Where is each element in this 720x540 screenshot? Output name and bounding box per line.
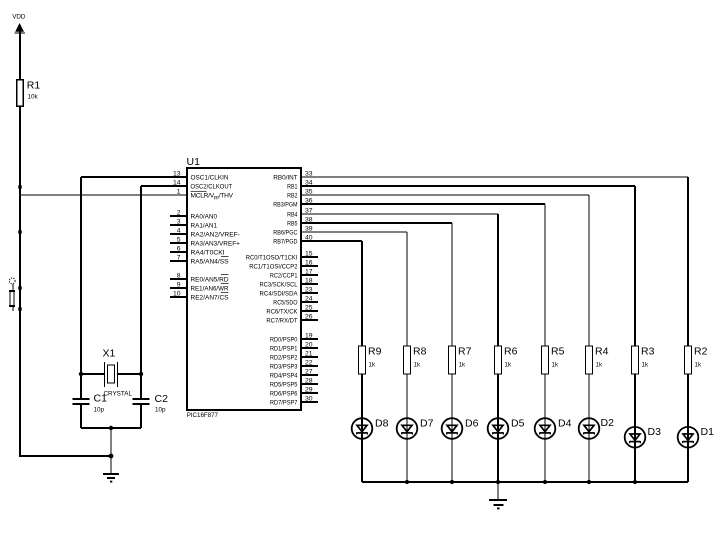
wire D3 to ground bus: [634, 448, 636, 483]
svg-text:RC7/RX/DT: RC7/RX/DT: [266, 318, 297, 325]
svg-text:RC3/SCK/SCL: RC3/SCK/SCL: [260, 282, 298, 289]
U1 pin 7 RA5/AN4/SS: [170, 254, 229, 265]
resistor R2 1k: [685, 346, 708, 375]
U1 pin 9 RE1/AN6/WR: [170, 281, 229, 292]
wire C1 to bottom: [80, 404, 82, 428]
U1 pin 38 RB5: [287, 216, 313, 227]
svg-text:RD4/PSP4: RD4/PSP4: [270, 373, 298, 380]
svg-text:10p: 10p: [94, 407, 105, 414]
svg-text:18: 18: [305, 277, 313, 284]
svg-text:R7: R7: [458, 346, 472, 358]
wire R4 to D2: [588, 374, 590, 418]
wire crystal bottom: [81, 427, 141, 429]
U1 pin 22 RD3/PSP3: [270, 359, 318, 370]
svg-text:RC5/SDO: RC5/SDO: [273, 300, 297, 307]
LED D4: [535, 418, 572, 439]
svg-text:24: 24: [305, 295, 313, 302]
svg-text:RE1/AN6/WR: RE1/AN6/WR: [191, 286, 229, 293]
wire RB2 (pin 35) to R4: [301, 195, 589, 346]
ground symbol right: [489, 500, 507, 509]
svg-text:10k: 10k: [28, 94, 39, 101]
U1 pin 1 MCLR/Vpp/THV: [177, 188, 234, 200]
junction button top: [18, 286, 21, 289]
svg-text:4: 4: [177, 227, 181, 234]
LED D5: [488, 418, 525, 439]
svg-text:RC1/T1OSI/CCP2: RC1/T1OSI/CCP2: [249, 264, 298, 271]
U1 pin 33 RB0/INT: [273, 170, 312, 181]
junction crystal left: [79, 372, 83, 376]
svg-text:RA5/AN4/SS: RA5/AN4/SS: [191, 259, 230, 266]
svg-text:16: 16: [305, 259, 313, 266]
U1 pin 39 RB6/PGC: [273, 225, 312, 236]
wire RB5 (pin 38) to R7: [301, 223, 452, 346]
wire RB0 (pin 33) to R2: [301, 177, 688, 346]
U1 pin 15 RC0/T1OSO/T1CKI: [246, 250, 318, 261]
resistor R7 1k: [449, 346, 472, 375]
svg-text:10: 10: [173, 290, 181, 297]
wire D8 to ground bus: [361, 439, 363, 482]
wire R6 to D5: [497, 374, 499, 418]
svg-text:RB1: RB1: [287, 184, 298, 191]
U1 pin 40 RB7/PGD: [273, 234, 312, 245]
junction ground bus at D5: [496, 480, 500, 484]
wire OSC1 horizontal (pin 13): [81, 176, 187, 178]
wire RB7 (pin 40) to R9: [301, 241, 362, 346]
svg-text:35: 35: [305, 188, 313, 195]
wire R7 to D6: [451, 374, 453, 418]
svg-text:C1: C1: [94, 393, 108, 405]
svg-text:D3: D3: [648, 426, 662, 438]
wire D4 to ground bus: [544, 439, 546, 482]
svg-text:1k: 1k: [596, 362, 603, 369]
svg-text:RD3/PSP3: RD3/PSP3: [270, 364, 298, 371]
svg-text:37: 37: [305, 207, 313, 214]
svg-text:19: 19: [305, 332, 313, 339]
U1 pin 8 RE0/AN5/RD: [170, 272, 229, 283]
svg-text:RC4/SDI/SDA: RC4/SDI/SDA: [260, 291, 299, 298]
svg-text:29: 29: [305, 386, 313, 393]
svg-text:RD0/PSP0: RD0/PSP0: [270, 337, 298, 344]
svg-text:RB6/PGC: RB6/PGC: [273, 230, 297, 237]
svg-text:OSC1/CLKIN: OSC1/CLKIN: [191, 175, 229, 182]
U1 pin 2 RA0/AN0: [170, 209, 217, 220]
svg-text:RA0/AN0: RA0/AN0: [191, 214, 218, 221]
wire D5 to ground bus: [497, 439, 499, 482]
svg-text:R9: R9: [368, 346, 382, 358]
junction ground bus at D2: [587, 480, 591, 484]
svg-text:1k: 1k: [695, 362, 702, 369]
LED D7: [397, 418, 434, 439]
svg-text:VDD: VDD: [12, 14, 26, 21]
LED D2: [579, 417, 614, 439]
wire to ground 1: [110, 428, 112, 473]
resistor R5 1k: [542, 346, 565, 375]
wire R9 to D8: [361, 374, 363, 418]
svg-text:RA3/AN3/VREF+: RA3/AN3/VREF+: [191, 241, 241, 248]
wire RB4 (pin 37) to R6: [301, 214, 498, 346]
svg-text:D2: D2: [601, 417, 615, 429]
junction ground bus at D4: [543, 480, 547, 484]
wire D1 to ground bus: [687, 448, 689, 483]
svg-text:RD7/PSP7: RD7/PSP7: [270, 400, 298, 407]
svg-text:C2: C2: [155, 393, 169, 405]
wire OSC2 horizontal (pin 14): [141, 185, 187, 187]
resistor R4 1k: [586, 346, 609, 375]
U1 pin 26 RC7/RX/DT: [266, 313, 318, 324]
svg-text:1k: 1k: [552, 362, 559, 369]
svg-text:RB4: RB4: [287, 212, 298, 219]
svg-text:21: 21: [305, 350, 313, 357]
U1 pin 16 RC1/T1OSI/CCP2: [249, 259, 318, 270]
svg-text:RA4/T0CKI: RA4/T0CKI: [191, 250, 225, 257]
svg-text:RC0/T1OSO/T1CKI: RC0/T1OSO/T1CKI: [246, 255, 298, 262]
junction crystal bottom: [109, 426, 113, 430]
U1 pin 36 RB3/PGM: [273, 197, 312, 208]
U1 pin 28 RD5/PSP5: [270, 377, 318, 388]
svg-text:2: 2: [177, 209, 181, 216]
svg-text:D7: D7: [420, 418, 434, 430]
U1 pin 34 RB1: [287, 179, 313, 190]
svg-text:RC2/CCP1: RC2/CCP1: [270, 273, 298, 280]
U1 pin 35 RB2: [287, 188, 313, 199]
wire C2 to bottom: [140, 404, 142, 428]
wire OSC2 vertical: [140, 186, 142, 399]
svg-text:7: 7: [177, 254, 181, 261]
svg-text:RB2: RB2: [287, 193, 298, 200]
U1 pin 37 RB4: [287, 207, 313, 218]
U1 pin 4 RA2/AN2/VREF-: [170, 227, 240, 238]
U1 pin 13 OSC1/CLKIN: [173, 170, 229, 181]
svg-text:MCLR/Vpp/THV: MCLR/Vpp/THV: [191, 193, 234, 201]
wire MCLR rail (R1 to bottom corner): [19, 106, 21, 456]
wire R5 to D4: [544, 374, 546, 418]
svg-text:6: 6: [177, 245, 181, 252]
svg-text:RA1/AN1: RA1/AN1: [191, 223, 218, 230]
LED D3: [625, 426, 661, 448]
svg-text:RD6/PSP6: RD6/PSP6: [270, 391, 298, 398]
svg-text:22: 22: [305, 359, 313, 366]
svg-text:D1: D1: [701, 426, 715, 438]
svg-text:R4: R4: [595, 346, 609, 358]
svg-text:3: 3: [177, 218, 181, 225]
svg-text:U1: U1: [187, 156, 201, 168]
svg-text:RB3/PGM: RB3/PGM: [273, 202, 297, 209]
wire R3 to D3: [634, 374, 636, 427]
svg-text:D5: D5: [511, 418, 525, 430]
svg-text:RD1/PSP1: RD1/PSP1: [270, 346, 298, 353]
svg-text:RB5: RB5: [287, 221, 298, 228]
svg-text:1k: 1k: [459, 362, 466, 369]
svg-text:8: 8: [177, 272, 181, 279]
U1 pin 18 RC3/SCK/SCL: [260, 277, 319, 288]
svg-text:PIC16F877: PIC16F877: [187, 412, 219, 419]
svg-text:23: 23: [305, 286, 313, 293]
svg-text:17: 17: [305, 268, 313, 275]
svg-text:1: 1: [177, 188, 181, 195]
svg-text:20: 20: [305, 341, 313, 348]
svg-text:RB7/PGD: RB7/PGD: [273, 239, 297, 246]
wire RB3 (pin 36) to R5: [301, 204, 545, 346]
svg-text:X1: X1: [103, 348, 116, 360]
wire D6 to ground bus: [451, 439, 453, 482]
svg-text:R8: R8: [413, 346, 427, 358]
LED D6: [442, 418, 479, 439]
svg-text:1k: 1k: [414, 362, 421, 369]
svg-text:1k: 1k: [369, 362, 376, 369]
svg-text:RD5/PSP5: RD5/PSP5: [270, 382, 298, 389]
svg-text:5: 5: [177, 236, 181, 243]
capacitor C2 10p: [133, 393, 169, 414]
U1 pin 20 RD1/PSP1: [270, 341, 318, 352]
svg-text:27: 27: [305, 368, 313, 375]
LED D1: [678, 426, 714, 448]
svg-text:28: 28: [305, 377, 313, 384]
svg-text:25: 25: [305, 304, 313, 311]
resistor R8 1k: [404, 346, 427, 375]
resistor R6 1k: [495, 346, 518, 375]
svg-text:R2: R2: [694, 346, 708, 358]
wire RB1 (pin 34) to R3: [301, 186, 635, 346]
wire R8 to D7: [406, 374, 408, 418]
ground bus wire: [362, 481, 688, 483]
LED D8: [352, 418, 389, 439]
svg-text:10p: 10p: [155, 407, 166, 414]
svg-text:R5: R5: [551, 346, 565, 358]
U1 pin 10 RE2/AN7/CS: [170, 290, 229, 301]
junction ground bus at D3: [633, 480, 637, 484]
svg-text:RC6/TX/CK: RC6/TX/CK: [266, 309, 298, 316]
svg-text:13: 13: [173, 170, 181, 177]
wire ground bus to ground 2: [497, 482, 499, 499]
junction ground bus at D6: [450, 480, 454, 484]
U1 pin 25 RC6/TX/CK: [266, 304, 318, 315]
resistor R3 1k: [632, 346, 655, 375]
U1 pin 17 RC2/CCP1: [270, 268, 318, 279]
svg-text:9: 9: [177, 281, 181, 288]
svg-text:CRYSTAL: CRYSTAL: [104, 391, 133, 398]
svg-text:14: 14: [173, 179, 181, 186]
svg-text:15: 15: [305, 250, 313, 257]
wire D2 to ground bus: [588, 439, 590, 482]
push button (reset): [9, 278, 15, 311]
svg-text:30: 30: [305, 395, 313, 402]
svg-text:1k: 1k: [505, 362, 512, 369]
svg-text:R6: R6: [504, 346, 518, 358]
crystal X1: [81, 348, 141, 398]
svg-text:1k: 1k: [642, 362, 649, 369]
wire VDD to R1: [19, 33, 21, 80]
U1 pin 23 RC4/SDI/SDA: [260, 286, 319, 297]
svg-text:26: 26: [305, 313, 313, 320]
svg-text:RD2/PSP2: RD2/PSP2: [270, 355, 298, 362]
svg-text:RE0/AN5/RD: RE0/AN5/RD: [191, 277, 229, 284]
svg-text:D8: D8: [375, 418, 389, 430]
wire OSC1 vertical: [80, 177, 82, 399]
resistor R1 10k: [17, 80, 41, 107]
wire R2 to D1: [687, 374, 689, 427]
U1 pin 19 RD0/PSP0: [270, 332, 318, 343]
U1 pin 24 RC5/SDO: [273, 295, 318, 306]
svg-text:OSC2/CLKOUT: OSC2/CLKOUT: [191, 184, 233, 191]
svg-text:R1: R1: [27, 80, 41, 92]
wire MCLR to U1 pin 1: [20, 194, 187, 196]
U1 pin 21 RD2/PSP2: [270, 350, 318, 361]
U1 pin 14 OSC2/CLKOUT: [173, 179, 232, 190]
wire corner to ground junction: [19, 455, 111, 457]
U1 pin 30 RD7/PSP7: [270, 395, 318, 406]
wire D7 to ground bus: [406, 439, 408, 482]
U1 pin 6 RA4/T0CKI: [170, 245, 225, 256]
resistor R9 1k: [359, 346, 382, 375]
microcontroller U1 PIC16F877: [187, 156, 302, 419]
ground symbol left: [103, 474, 119, 483]
junction on MCLR rail lower: [18, 230, 21, 233]
svg-text:RA2/AN2/VREF-: RA2/AN2/VREF-: [191, 232, 240, 239]
junction crystal right: [139, 372, 143, 376]
junction ground bus at D7: [405, 480, 409, 484]
svg-text:33: 33: [305, 170, 313, 177]
svg-text:39: 39: [305, 225, 313, 232]
junction on MCLR rail upper: [18, 185, 21, 188]
U1 pin 27 RD4/PSP4: [270, 368, 318, 379]
capacitor C1 10p: [73, 393, 108, 414]
junction ground rail: [109, 454, 114, 459]
wire RB6 (pin 39) to R8: [301, 232, 407, 346]
power terminal VDD: [12, 14, 26, 37]
svg-text:R3: R3: [641, 346, 655, 358]
U1 pin 29 RD6/PSP6: [270, 386, 318, 397]
svg-text:RE2/AN7/CS: RE2/AN7/CS: [191, 295, 230, 302]
svg-text:RB0/INT: RB0/INT: [273, 175, 297, 182]
svg-text:D6: D6: [465, 418, 479, 430]
svg-text:D4: D4: [558, 418, 572, 430]
junction button bottom: [18, 307, 21, 310]
U1 pin 3 RA1/AN1: [170, 218, 217, 229]
U1 pin 5 RA3/AN3/VREF+: [170, 236, 240, 247]
